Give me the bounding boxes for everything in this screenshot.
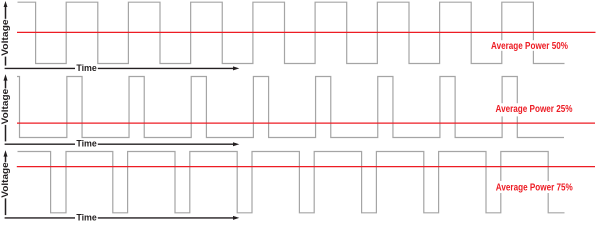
svg-text:Voltage: Voltage [0, 89, 11, 125]
svg-text:Time: Time [76, 139, 97, 150]
svg-text:Average Power 50%: Average Power 50% [491, 40, 569, 52]
svg-text:Average Power 75%: Average Power 75% [496, 182, 574, 194]
svg-text:Voltage: Voltage [0, 19, 11, 56]
svg-text:Time: Time [76, 212, 97, 223]
svg-text:Time: Time [76, 63, 97, 74]
svg-text:Average Power 25%: Average Power 25% [496, 103, 574, 115]
svg-text:Voltage: Voltage [0, 162, 11, 198]
